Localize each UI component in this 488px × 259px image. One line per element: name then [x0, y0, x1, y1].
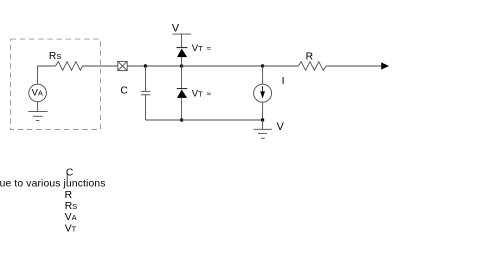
svg-text:C: C — [120, 85, 128, 96]
node current source top — [261, 64, 264, 67]
svg-text:VT≈: VT≈ — [192, 43, 212, 54]
voltage source VA — [29, 84, 47, 102]
svg-text:VT≈: VT≈ — [192, 88, 212, 99]
resistor RS — [56, 62, 83, 71]
output arrow — [381, 62, 389, 69]
wire ground node to ground — [262, 120, 264, 129]
bottom wire capacitor to ground node — [146, 119, 263, 121]
capacitor C — [141, 66, 151, 120]
wire diode node to diode D2 — [181, 66, 183, 89]
power rail V (positive) — [172, 22, 191, 34]
resistor R — [298, 62, 326, 71]
input pin (crossed box) — [118, 61, 127, 70]
svg-text:RS: RS — [65, 201, 77, 212]
node diode bottom junction — [180, 118, 183, 121]
wire current source node to resistor R — [263, 65, 299, 67]
ground (left, under VA) — [28, 102, 47, 121]
wire R to output — [326, 65, 381, 67]
node ground junction — [261, 118, 264, 121]
ground (right, V-) — [254, 129, 273, 138]
svg-text:RS: RS — [49, 51, 61, 62]
svg-text:ue to various junctions: ue to various junctions — [0, 179, 106, 190]
svg-text:V: V — [172, 22, 180, 34]
svg-text:R: R — [65, 190, 72, 201]
svg-text:V: V — [277, 121, 285, 133]
legend table rule — [66, 174, 68, 186]
node capacitor tap — [144, 64, 147, 67]
diode D2 (to V-) — [177, 89, 188, 120]
svg-text:R: R — [306, 52, 313, 63]
diode D1 (to V+) — [177, 48, 188, 66]
enclosure dashed box (source model) — [11, 39, 101, 129]
wire V rail to diode D1 — [181, 34, 183, 48]
wire input pin to capacitor node — [127, 65, 145, 67]
current source I — [254, 66, 272, 120]
svg-text:VA: VA — [32, 88, 43, 99]
svg-text:VA: VA — [65, 212, 77, 223]
svg-text:I: I — [282, 76, 285, 87]
svg-text:VT: VT — [65, 223, 77, 234]
wire diode node to current source node — [182, 65, 263, 67]
node diode top junction — [180, 64, 183, 67]
wire VA top to rail — [38, 66, 56, 84]
wire capacitor node to diode node — [146, 65, 182, 67]
wire RS to input pin — [83, 65, 118, 67]
